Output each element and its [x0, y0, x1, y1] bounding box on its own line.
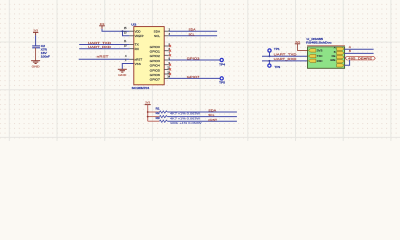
test point TP5 [219, 77, 225, 85]
svg-text:SCL: SCL [208, 113, 215, 117]
svg-text:A: A [334, 46, 336, 50]
U3 right pin names [150, 29, 161, 81]
wire R3 to nRST [167, 120, 237, 122]
wire A [344, 48, 373, 50]
svg-text:100nF: 100nF [41, 55, 50, 59]
svg-text:SCL: SCL [189, 32, 195, 36]
wire VSS to GND [122, 64, 134, 70]
no-ERC crosses on unused GPIO pins [169, 45, 171, 75]
svg-text:3V3: 3V3 [33, 28, 38, 32]
wire SDA [169, 30, 217, 32]
wire DE to port [344, 56, 345, 58]
wire TP3 stem [268, 61, 270, 64]
svg-text:VDD: VDD [135, 29, 142, 33]
wire nRST [79, 58, 130, 60]
resistor R3 [156, 116, 203, 125]
capacitor C2 100nF X7R 16V [32, 44, 50, 59]
power port 3V3 (C2 branch) [33, 28, 38, 35]
IC U3 SC18IM704 [131, 22, 164, 90]
wire stub R2 [148, 116, 160, 118]
sheet entry RXD [308, 59, 322, 63]
svg-text:GND: GND [32, 64, 41, 68]
svg-text:nRST: nRST [97, 55, 109, 59]
svg-text:GPIO5: GPIO5 [150, 68, 160, 72]
svg-text:TP4: TP4 [219, 62, 225, 66]
wire R1 to SDA [167, 111, 237, 113]
wire GPIO7 to TP5 [169, 77, 220, 79]
sheet entry GND [337, 64, 345, 67]
U3 right pin stubs [164, 31, 169, 78]
svg-text:B: B [334, 50, 336, 54]
wire TP1 stem [269, 52, 271, 56]
svg-text:B: B [349, 49, 351, 53]
svg-text:GPIO0: GPIO0 [150, 45, 160, 49]
power port 3V3 (RS485 sheet) [295, 40, 300, 44]
svg-text:GPIO6: GPIO6 [150, 73, 160, 77]
sheet symbol U_RS485 RS485.SchDoc [306, 37, 345, 68]
wire UART_RXD to RX [79, 48, 129, 50]
resistor R1 [156, 106, 201, 115]
svg-text:3V3: 3V3 [295, 40, 300, 44]
U3 left pin numbers 15 13 11 10 4 1 [124, 27, 127, 62]
svg-text:SDA: SDA [208, 109, 216, 113]
svg-text:TP3: TP3 [274, 65, 280, 69]
U3 left pin stubs [129, 31, 133, 59]
junction at VDD branch [122, 30, 124, 32]
wire UART_TXD to sheet TXD [262, 55, 308, 57]
wire stub R3 [148, 120, 160, 122]
svg-text:DE: DE [332, 54, 336, 58]
wire SCL [169, 35, 217, 37]
sheet entry TXD [308, 54, 322, 58]
junction R2 branch [147, 116, 149, 118]
power port 3V3 (pull-ups) [145, 101, 151, 105]
wire 3V3 to VDD/VREFP [102, 29, 129, 36]
U3 right pin numbers [167, 29, 170, 79]
resistor R2 [156, 111, 201, 120]
ground GND (U3 VSS) [118, 69, 127, 77]
svg-text:GPIO7: GPIO7 [187, 75, 200, 79]
svg-text:RS485.SchDoc: RS485.SchDoc [306, 40, 332, 44]
ground GND (C2) [31, 61, 40, 69]
wire stub R1 [148, 111, 160, 113]
svg-text:GPIO7: GPIO7 [150, 77, 160, 81]
svg-text:TP5: TP5 [219, 81, 225, 85]
port 485_DE#RE [345, 56, 375, 60]
wire B [344, 52, 373, 54]
svg-text:485_DE#RE: 485_DE#RE [348, 56, 372, 60]
svg-text:U3: U3 [131, 22, 136, 26]
sheet entry 3V3 [308, 48, 323, 52]
wire C2 to GND [35, 48, 37, 61]
wire R2 to SCL [167, 116, 237, 118]
wire 3V3 to C2 [35, 35, 37, 46]
svg-text:GPIO1: GPIO1 [150, 50, 160, 54]
junction TP3/RXD [268, 60, 270, 62]
sheet entry nRE [330, 58, 344, 67]
junction TP1/TXD [269, 55, 271, 57]
sheet entry DE [332, 54, 345, 59]
svg-text:SDA: SDA [189, 28, 196, 32]
wire 3V3 vertical bus [147, 105, 149, 122]
test point TP3 [268, 64, 281, 69]
svg-text:R1: R1 [156, 106, 160, 110]
svg-text:TP1: TP1 [274, 47, 280, 51]
junction R1 branch [147, 111, 149, 113]
svg-text:R2: R2 [156, 111, 160, 115]
test point TP1 [268, 47, 280, 52]
svg-text:SC18IM704: SC18IM704 [132, 86, 150, 90]
sheet entry B [334, 50, 344, 55]
svg-text:VSS: VSS [135, 62, 141, 66]
svg-text:3V3: 3V3 [317, 48, 323, 52]
wire UART_TXD to TX [79, 44, 129, 46]
svg-text:TXD: TXD [317, 54, 323, 58]
wire nRE to DE net [344, 60, 349, 65]
svg-text:SCL: SCL [154, 34, 160, 38]
svg-text:nRE: nRE [330, 58, 336, 62]
svg-text:GPIO3: GPIO3 [150, 59, 160, 63]
svg-text:3V3: 3V3 [145, 101, 150, 105]
wire GPIO3 to TP4 [169, 59, 220, 61]
svg-text:GPIO3: GPIO3 [187, 56, 200, 60]
svg-text:GPIO2: GPIO2 [150, 54, 160, 58]
svg-text:UART_RXD: UART_RXD [274, 57, 298, 61]
svg-text:RXD: RXD [317, 59, 323, 63]
svg-text:nRST: nRST [208, 118, 217, 122]
svg-text:VREFP: VREFP [135, 34, 144, 38]
wire UART_RXD to sheet RXD [262, 60, 308, 62]
svg-text:SDA: SDA [154, 29, 161, 33]
svg-text:RX: RX [135, 47, 139, 51]
sheet entry A [334, 46, 344, 51]
U3 left pin names [135, 29, 144, 65]
power port 3V3 (U3 VDD) [99, 22, 105, 29]
svg-text:TX: TX [135, 43, 139, 47]
svg-text:R3: R3 [156, 116, 160, 120]
test point TP4 [219, 58, 225, 66]
svg-text:GND: GND [118, 73, 127, 77]
wire 3V3 to sheet port [298, 44, 308, 51]
svg-text:GPIO4: GPIO4 [150, 64, 160, 68]
